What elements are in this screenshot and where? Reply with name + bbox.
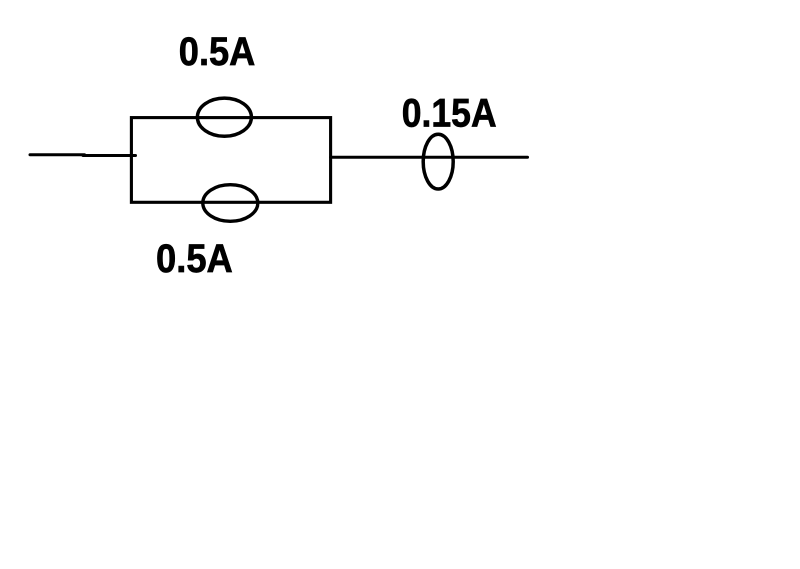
svg-text:0.5A: 0.5A <box>179 30 256 74</box>
wire W1 left lead segment b <box>83 154 136 157</box>
ammeter A1 (top branch) <box>197 98 251 136</box>
ammeter A2 (bottom branch) <box>203 185 258 222</box>
ammeter A3 (series, right lead) <box>423 134 453 189</box>
svg-text:0.15A: 0.15A <box>402 92 497 136</box>
wire loop: parallel-branch rectangle (top/bottom branches and side wires) <box>131 118 330 203</box>
wire W2 right lead <box>331 156 528 159</box>
svg-text:0.5A: 0.5A <box>156 237 233 281</box>
wire W1 left lead segment a <box>30 153 85 156</box>
